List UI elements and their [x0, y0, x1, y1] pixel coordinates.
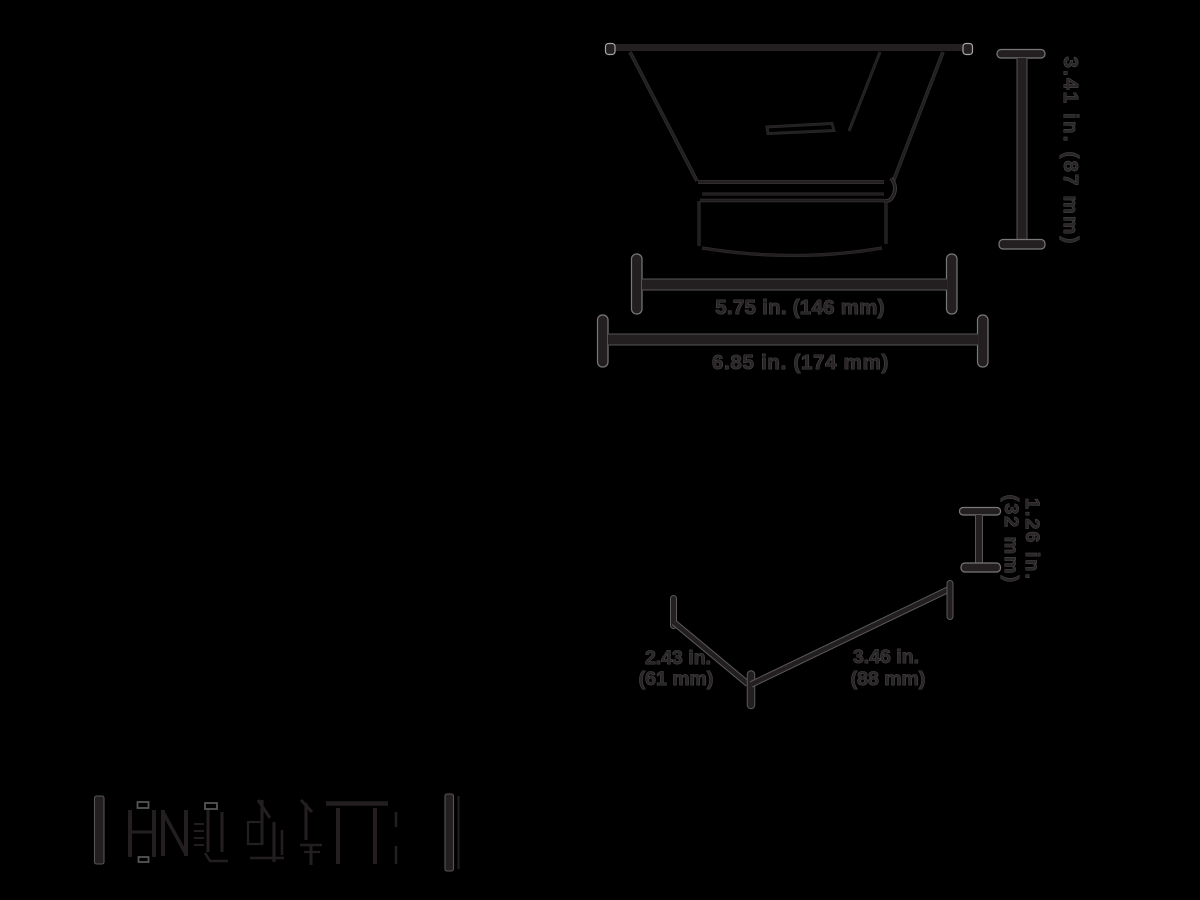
vertical dimension right (3.41 in) line — [997, 50, 1045, 250]
product top bar — [606, 44, 974, 55]
svg-text:5.75 in. (146 mm): 5.75 in. (146 mm) — [715, 296, 884, 319]
product left slant edge — [630, 52, 697, 181]
footer glyph 2 — [163, 810, 186, 856]
view2 left diagonal dimension line — [674, 623, 748, 685]
svg-text:6.85 in. (174 mm): 6.85 in. (174 mm) — [712, 351, 889, 374]
svg-text:3.46 in.: 3.46 in. — [853, 646, 919, 668]
svg-text:(88 mm): (88 mm) — [851, 668, 926, 690]
svg-text:1.26 in.(32 mm): 1.26 in.(32 mm) — [1000, 495, 1043, 584]
label 5.75 in. (146 mm) — [715, 296, 884, 319]
view2 vertical dimension 1.26 line — [960, 508, 1001, 573]
svg-text:3.41 in. (87 mm): 3.41 in. (87 mm) — [1059, 56, 1082, 245]
horizontal dimension 5.75 line — [632, 254, 958, 314]
footer glyph 5 — [300, 800, 322, 865]
product right slant edge — [893, 52, 943, 182]
svg-text:2.43 in.: 2.43 in. — [645, 647, 711, 669]
label 6.85 in. (174 mm) — [712, 351, 889, 374]
product base sides — [699, 201, 886, 246]
footer left bracket bar — [95, 796, 105, 864]
footer glyph 6 — [326, 804, 388, 865]
footer glyph 1 — [130, 802, 154, 862]
product inner right slant — [849, 52, 880, 131]
product base bottom arc — [702, 248, 882, 256]
footer glyph 3 — [194, 803, 228, 861]
footer right bracket bars — [445, 794, 459, 871]
vertical dimension right label 3.41 in. (87 mm) — [1059, 56, 1082, 245]
view2 right tick — [947, 584, 954, 617]
product slot rectangle — [767, 124, 834, 134]
view2 vertex tick — [747, 675, 756, 706]
svg-text:(61 mm): (61 mm) — [639, 668, 714, 690]
horizontal dimension 6.85 line — [598, 315, 989, 367]
view2 vertical label 1.26 in. (32 mm) — [1000, 495, 1043, 584]
footer glyph 4 — [248, 800, 284, 862]
label 2.43 in. (61 mm) — [639, 647, 714, 690]
product base rim lines — [698, 182, 884, 201]
view2 right diagonal dimension line — [751, 589, 950, 685]
footer glyph 7 — [395, 812, 398, 864]
label 3.46 in. (88 mm) — [851, 646, 926, 690]
view2 left tick — [670, 599, 677, 626]
product base right corner curve — [884, 178, 895, 201]
